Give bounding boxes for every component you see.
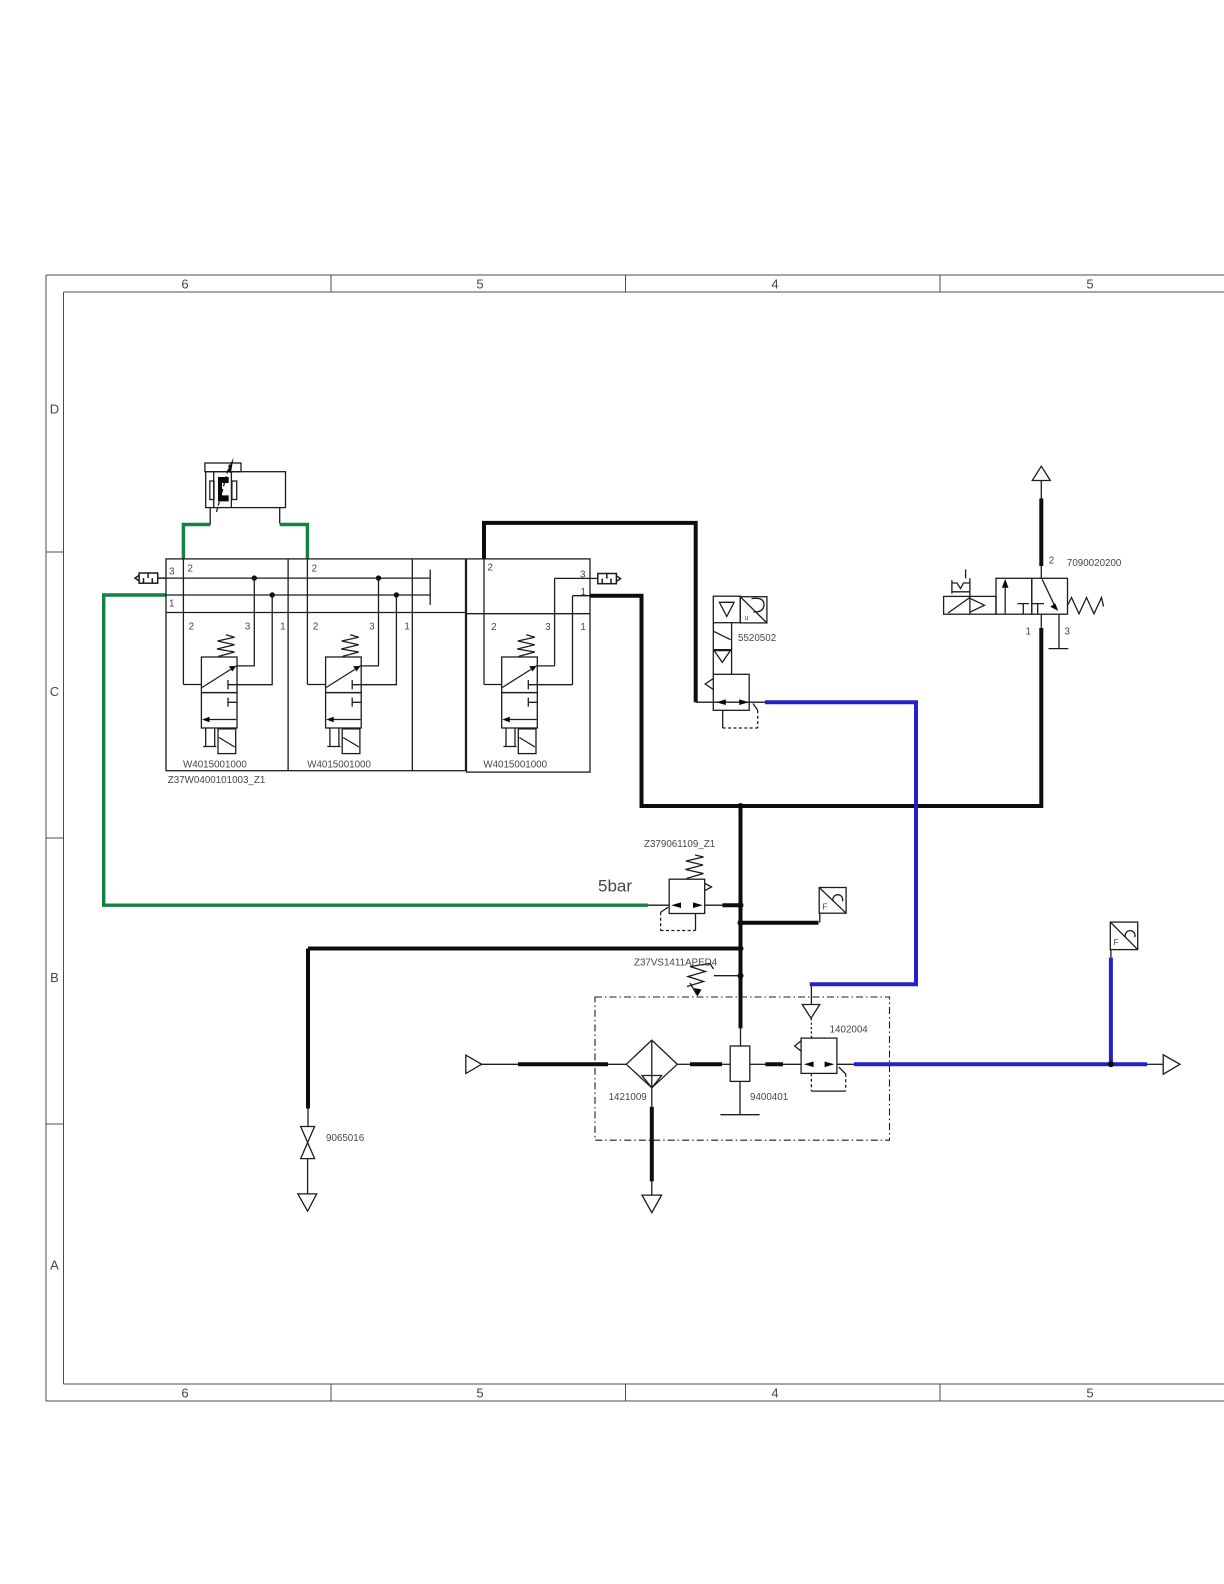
svg-text:2: 2 — [1049, 556, 1054, 567]
svg-text:6: 6 — [181, 1386, 188, 1401]
svg-text:4: 4 — [771, 277, 778, 292]
svg-text:2: 2 — [188, 564, 193, 575]
svg-text:1: 1 — [280, 622, 285, 633]
svg-text:D: D — [50, 402, 59, 417]
svg-text:F: F — [823, 902, 828, 912]
svg-text:5: 5 — [1086, 277, 1093, 292]
svg-text:A: A — [50, 1258, 59, 1273]
svg-text:5: 5 — [476, 277, 483, 292]
svg-text:Z379061109_Z1: Z379061109_Z1 — [644, 839, 715, 850]
svg-text:2: 2 — [488, 563, 493, 574]
svg-text:9400401: 9400401 — [750, 1092, 788, 1103]
svg-text:3: 3 — [245, 622, 251, 633]
svg-text:3: 3 — [545, 622, 551, 633]
svg-text:3: 3 — [169, 567, 175, 578]
svg-text:1: 1 — [404, 622, 409, 633]
svg-text:3: 3 — [580, 570, 586, 581]
svg-text:2: 2 — [313, 622, 318, 633]
svg-text:1421009: 1421009 — [609, 1092, 647, 1103]
svg-text:B: B — [50, 970, 59, 985]
svg-text:3: 3 — [369, 622, 375, 633]
svg-text:7090020200: 7090020200 — [1067, 558, 1122, 569]
svg-text:9065016: 9065016 — [326, 1133, 365, 1144]
svg-text:5: 5 — [476, 1386, 483, 1401]
svg-text:2: 2 — [312, 564, 317, 575]
svg-text:F: F — [1114, 937, 1119, 947]
svg-text:1: 1 — [580, 622, 585, 633]
svg-text:1: 1 — [169, 599, 174, 610]
svg-text:3: 3 — [1065, 627, 1071, 638]
svg-text:Z37W0400101003_Z1: Z37W0400101003_Z1 — [168, 775, 265, 786]
svg-text:C: C — [50, 684, 59, 699]
svg-text:2: 2 — [491, 622, 496, 633]
svg-text:W4015001000: W4015001000 — [483, 760, 547, 771]
svg-text:W4015001000: W4015001000 — [307, 760, 371, 771]
svg-text:1402004: 1402004 — [830, 1025, 869, 1036]
svg-text:W4015001000: W4015001000 — [183, 760, 247, 771]
svg-text:1: 1 — [1026, 627, 1031, 638]
svg-text:5: 5 — [1086, 1386, 1093, 1401]
svg-text:6: 6 — [181, 277, 188, 292]
svg-text:4: 4 — [771, 1386, 778, 1401]
svg-text:1: 1 — [581, 587, 586, 598]
svg-text:2: 2 — [189, 622, 194, 633]
svg-text:Z37VS1411APED4: Z37VS1411APED4 — [634, 958, 718, 969]
svg-text:5520502: 5520502 — [738, 633, 776, 644]
svg-text:5bar: 5bar — [598, 877, 632, 896]
svg-text:u: u — [745, 615, 749, 622]
